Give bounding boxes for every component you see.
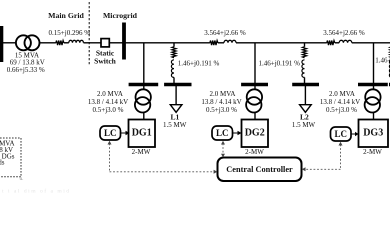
feeder impedance Z1 resistor [210, 41, 218, 46]
dashed control link LC2 to central controller [221, 141, 225, 158]
static switch SS [101, 39, 109, 47]
load L2 stem [304, 86, 306, 105]
DG3 transformer [365, 86, 381, 120]
feeder wire Z1 to impedance Z2 [236, 42, 327, 44]
svg-text:DG3: DG3 [363, 128, 383, 139]
separator dashed boundary line [88, 2, 90, 66]
load branch impedance ZL3 (clipped at right edge) [389, 43, 390, 85]
svg-text:1.46+j0.191 %: 1.46+j0.191 % [375, 57, 390, 65]
svg-text:Microgrid: Microgrid [103, 11, 138, 20]
transformer T1 rating label [7, 51, 45, 73]
load branch impedance ZL1 stem [173, 43, 175, 47]
arrow LC3 to DG3 [351, 132, 359, 136]
svg-text:2.0 MVA: 2.0 MVA [210, 90, 236, 98]
feeder impedance Z2 resistor [327, 41, 335, 46]
central controller box [218, 158, 302, 182]
svg-text:3.564+j2.66 %: 3.564+j2.66 % [323, 29, 365, 37]
wire Z1 resistor to inductor [218, 42, 224, 44]
svg-text:2-MW: 2-MW [132, 148, 151, 156]
DG1 transformer rating label [88, 90, 128, 114]
feeder wire Z2 to right edge [352, 42, 390, 44]
DG1 box [129, 120, 156, 148]
load L1 stem [175, 86, 177, 105]
page artifact small mark [20, 176, 24, 182]
DG3 box [359, 120, 389, 148]
DG3 transformer rating label [320, 90, 360, 114]
transformer T1 [16, 35, 40, 50]
feeder impedance Z1 value label [204, 29, 246, 37]
svg-text:13.8 / 4.14 kV: 13.8 / 4.14 kV [88, 98, 128, 106]
wire ZL1 to L1 bus [173, 77, 175, 83]
wire Z0 resistor to inductor [64, 42, 69, 44]
svg-text:Main Grid: Main Grid [48, 11, 84, 20]
svg-text:13.8 / 4.14 kV: 13.8 / 4.14 kV [320, 98, 360, 106]
DG3 bus bar [358, 83, 388, 86]
label Microgrid [103, 11, 138, 20]
svg-text:0.5+j3.0 %: 0.5+j3.0 % [93, 106, 124, 114]
svg-text:0.5+j3.0 %: 0.5+j3.0 % [206, 106, 237, 114]
svg-text:1.5 MW: 1.5 MW [292, 121, 316, 129]
svg-text:2-MW: 2-MW [245, 148, 264, 156]
L2 bus bar [292, 83, 319, 86]
wire drop to DG2 bus [254, 43, 256, 83]
load branch impedance ZL1 resistor [172, 47, 176, 58]
load branch impedance ZL2 stem [304, 43, 306, 47]
wire Z0 to static switch [84, 42, 102, 44]
load branch impedance ZL2 value label [259, 60, 301, 68]
svg-text:2.0 MVA: 2.0 MVA [329, 90, 355, 98]
feeder impedance Z1 inductor [224, 40, 236, 42]
svg-text:Central Controller: Central Controller [226, 165, 293, 174]
load branch impedance ZL3 value label (clipped at edge) [375, 57, 390, 65]
load L1 label [163, 113, 187, 130]
svg-text:LC: LC [104, 128, 117, 138]
line impedance Z0 value label [49, 29, 91, 37]
svg-text:0.66+j5.33 %: 0.66+j5.33 % [7, 66, 45, 74]
feeder impedance Z2 value label [323, 29, 365, 37]
load branch impedance ZL1 inductor [171, 60, 174, 78]
wire static switch to microgrid bus [109, 42, 123, 44]
load branch impedance ZL1 value label [178, 59, 220, 67]
svg-text:3.564+j2.66 %: 3.564+j2.66 % [204, 29, 246, 37]
DG2 bus bar [241, 83, 268, 86]
dashed control link LC3 to central controller [302, 142, 343, 172]
svg-text:0.5+j3.0 %: 0.5+j3.0 % [326, 106, 357, 114]
svg-text:LC: LC [334, 129, 347, 139]
wire drop to DG1 bus [143, 43, 145, 83]
local controller LC1 [100, 126, 121, 140]
svg-text:2-MW: 2-MW [363, 148, 382, 156]
load branch impedance ZL2 inductor [302, 60, 305, 78]
label Static Switch [94, 49, 116, 66]
local controller LC2 [212, 126, 233, 140]
DG1 bus bar [129, 83, 159, 86]
feeder wire bus to impedance Z1 [124, 42, 210, 44]
DG2 transformer [246, 86, 262, 120]
load L2 label [292, 113, 316, 130]
legend box (clipped at left edge) [0, 138, 21, 177]
svg-text:u.: u. [20, 176, 24, 182]
microgrid main bus [122, 23, 126, 60]
wire main bus to transformer T1 [3, 42, 15, 44]
arrow LC2 to DG2 [233, 131, 242, 135]
svg-text:1.46+j0.191 %: 1.46+j0.191 % [259, 60, 301, 68]
DG2 box [242, 120, 269, 148]
wire T1 to line impedance Z0 [40, 42, 56, 44]
svg-text:DG1: DG1 [132, 128, 152, 139]
wire drop to DG3 bus [373, 43, 375, 83]
svg-text:DG2: DG2 [245, 128, 265, 139]
feeder impedance Z2 inductor [339, 40, 352, 43]
local controller LC3 [331, 127, 352, 141]
svg-text:ds: ds [0, 158, 5, 166]
svg-text:LC: LC [216, 128, 229, 138]
svg-text:1.46+j0.191 %: 1.46+j0.191 % [178, 59, 220, 67]
line impedance Z0 resistor [56, 41, 64, 46]
svg-text:1.5 MW: 1.5 MW [163, 121, 187, 129]
wire Z2 resistor to inductor [335, 42, 339, 44]
load branch impedance ZL2 resistor [302, 47, 306, 58]
DG1 transformer [135, 86, 151, 120]
svg-text:0.15+j0.296 %: 0.15+j0.296 % [49, 29, 91, 37]
L1 bus bar [164, 83, 191, 86]
svg-text:Switch: Switch [94, 56, 116, 65]
svg-text:13.8 / 4.14 kV: 13.8 / 4.14 kV [201, 98, 241, 106]
svg-text:2.0 MVA: 2.0 MVA [97, 90, 123, 98]
DG3 power label 2-MW [363, 148, 382, 156]
load L1 arrow [170, 105, 182, 113]
page artifact faint caption [2, 188, 71, 195]
label Main Grid [48, 11, 84, 20]
line impedance Z0 inductor [69, 40, 84, 43]
main grid bus [0, 26, 3, 62]
DG1 power label 2-MW [132, 148, 151, 156]
arrow LC1 to DG1 [121, 131, 130, 135]
load L2 arrow [300, 105, 312, 113]
DG2 power label 2-MW [245, 148, 264, 156]
svg-text:t i al dim of a mid: t i al dim of a mid [2, 188, 71, 195]
dashed control link LC1 to central controller [108, 141, 218, 174]
wire ZL2 to L2 bus [304, 77, 306, 83]
DG2 transformer rating label [201, 90, 241, 114]
